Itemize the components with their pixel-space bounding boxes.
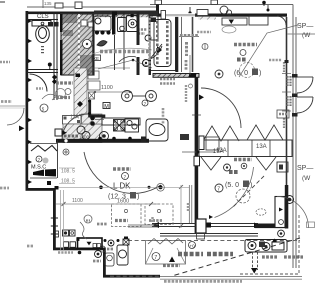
svg-text:108. 5: 108. 5 bbox=[61, 169, 75, 175]
svg-text:(6. 0: (6. 0 bbox=[234, 70, 248, 77]
svg-text:135: 135 bbox=[44, 1, 52, 6]
svg-text:SP—: SP— bbox=[297, 23, 313, 30]
svg-text:XE: XE bbox=[93, 56, 99, 61]
svg-text:+0: +0 bbox=[190, 244, 196, 249]
svg-text:M.S.C: M.S.C bbox=[31, 165, 46, 171]
svg-text:(W: (W bbox=[302, 175, 311, 182]
svg-text:1100: 1100 bbox=[72, 198, 83, 204]
svg-text:(5. 0: (5. 0 bbox=[225, 182, 239, 189]
svg-text:M: M bbox=[104, 104, 109, 110]
svg-text:7: 7 bbox=[154, 255, 157, 261]
svg-text:13A: 13A bbox=[70, 115, 80, 121]
svg-text:L DK: L DK bbox=[113, 182, 131, 191]
svg-text:1800: 1800 bbox=[79, 135, 90, 140]
svg-text:): ) bbox=[137, 194, 139, 201]
svg-text:1600: 1600 bbox=[117, 199, 129, 205]
svg-text:13A: 13A bbox=[256, 144, 267, 150]
svg-text:SP—: SP— bbox=[297, 165, 313, 172]
svg-text:): ) bbox=[259, 70, 261, 77]
svg-text:7: 7 bbox=[217, 187, 220, 193]
svg-text:13A: 13A bbox=[216, 148, 227, 154]
svg-text:(W: (W bbox=[302, 32, 311, 39]
svg-text:CLS: CLS bbox=[37, 14, 49, 20]
svg-text:1100: 1100 bbox=[101, 85, 113, 91]
